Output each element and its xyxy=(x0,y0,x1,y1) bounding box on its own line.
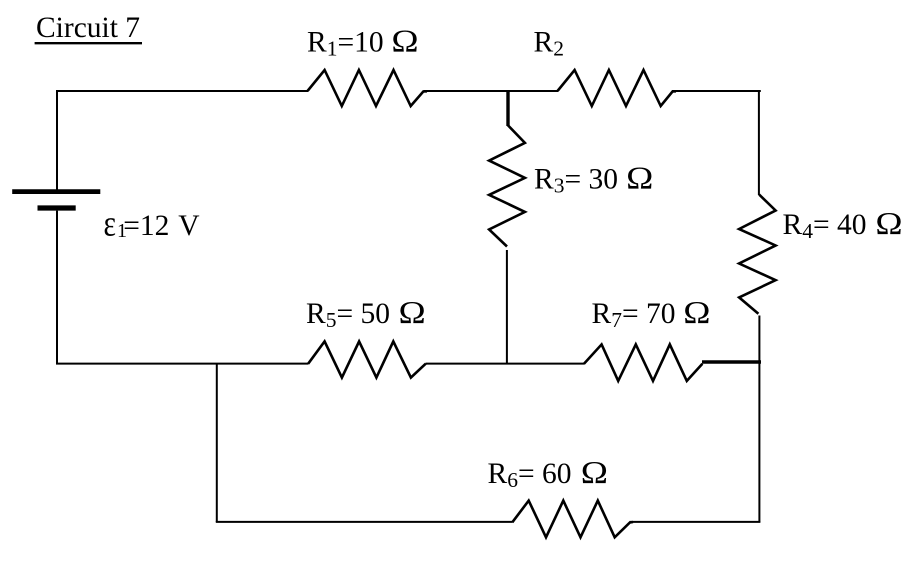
resistor R7 xyxy=(584,344,702,381)
svg-text:R7= 70: R7= 70 xyxy=(592,298,676,332)
svg-text:R4= 40: R4= 40 xyxy=(783,209,867,243)
wire middle rail center xyxy=(426,363,585,365)
wire R7 to corner bold xyxy=(702,360,761,364)
resistor R4 xyxy=(739,195,776,314)
node junction R3 top stub xyxy=(506,90,509,126)
svg-text:R2: R2 xyxy=(534,27,564,61)
wire R3 bottom xyxy=(506,250,508,365)
title Circuit 7 xyxy=(35,12,142,44)
svg-text:Ω: Ω xyxy=(391,24,418,59)
wire top rail left xyxy=(56,90,308,92)
wire top-left vertical xyxy=(56,90,58,190)
wire R4 bottom stub xyxy=(758,316,760,363)
wire middle rail left xyxy=(56,363,309,365)
resistor R6 xyxy=(512,501,633,538)
wire junction drop left xyxy=(216,364,218,522)
resistor R5 xyxy=(308,341,426,377)
wire right vertical bottom xyxy=(758,361,760,523)
svg-text:R5= 50: R5= 50 xyxy=(306,298,390,332)
svg-text:R6= 60: R6= 60 xyxy=(488,458,572,492)
battery E1 positive plate xyxy=(12,189,100,194)
resistor R3 xyxy=(489,125,525,247)
battery E1 negative plate xyxy=(38,205,76,210)
resistor R1 xyxy=(308,70,428,106)
svg-text:ε: ε xyxy=(104,204,116,245)
resistor R2 xyxy=(558,70,677,106)
svg-text:R1=10: R1=10 xyxy=(307,27,384,61)
wire right vertical top xyxy=(758,90,760,195)
svg-text:Ω: Ω xyxy=(683,295,710,330)
svg-text:Ω: Ω xyxy=(399,295,426,330)
svg-text:1=12V: 1=12V xyxy=(117,210,200,242)
wire battery bottom vertical xyxy=(56,211,58,365)
wire top rail middle xyxy=(424,90,559,92)
svg-text:Ω: Ω xyxy=(581,455,608,490)
wire bottom rail left xyxy=(216,521,513,523)
wire top rail right xyxy=(672,90,761,92)
svg-text:Ω: Ω xyxy=(626,161,653,196)
wire bottom rail right xyxy=(630,521,761,523)
svg-text:Circuit 7: Circuit 7 xyxy=(36,12,140,44)
svg-text:Ω: Ω xyxy=(875,206,902,241)
svg-text:R3= 30: R3= 30 xyxy=(534,164,618,198)
